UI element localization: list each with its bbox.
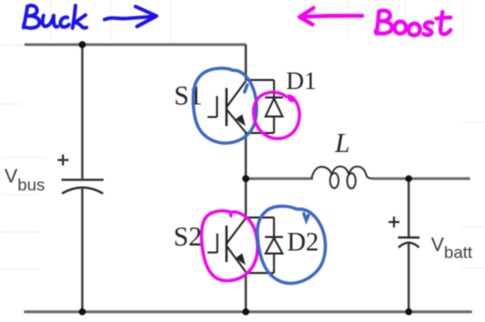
- wire middle rail right of inductor: [373, 177, 471, 180]
- wire right vertical lower (Vbatt bottom): [408, 243, 410, 312]
- svg-text:D1: D1: [286, 68, 317, 95]
- transistor S1 (IGBT): [208, 81, 246, 133]
- wire center vertical S1-S2 link: [245, 133, 247, 218]
- annotation arrow right (blue): [105, 7, 157, 27]
- capacitor Vbatt: [398, 238, 420, 248]
- diode D2 frame: [246, 218, 274, 274]
- svg-text:S2: S2: [174, 222, 203, 252]
- diode D1: [265, 98, 283, 117]
- annotation arrow left (magenta): [300, 8, 363, 25]
- annotation circle S2 (magenta): [201, 211, 257, 281]
- annotation circle S1 (blue): [193, 68, 256, 143]
- wire left vertical upper (Vbus top): [81, 45, 83, 179]
- wire right vertical upper (Vbatt top): [408, 179, 410, 237]
- svg-text:L: L: [334, 128, 350, 158]
- node A: top rail / Vbus junction: [79, 41, 86, 48]
- wire bottom rail: [24, 310, 472, 313]
- wire top rail: [25, 43, 247, 46]
- arrowhead S2 emitter: [235, 253, 245, 265]
- node D: bottom rail / S2 junction: [242, 308, 249, 315]
- diode D2: [265, 237, 283, 254]
- inductor L coil: [312, 166, 373, 188]
- wire middle rail left of inductor: [246, 177, 313, 180]
- plus sign Vbatt: [389, 217, 400, 228]
- capacitor Vbus: [62, 180, 104, 194]
- node E: middle rail / Vbatt junction: [405, 175, 412, 182]
- annotation circle D1 (magenta): [254, 92, 300, 138]
- annotation Buck (blue): [24, 6, 87, 29]
- annotation Boost (magenta): [376, 11, 451, 36]
- wire center vertical S2 emitter to bottom: [245, 273, 247, 312]
- node C: switch midpoint junction: [242, 175, 249, 182]
- svg-text:S1: S1: [174, 81, 203, 111]
- node B: bottom rail / Vbus junction: [79, 308, 86, 315]
- wire center vertical S1 collector: [245, 45, 247, 80]
- diode D1 frame: [246, 80, 274, 133]
- svg-text:D2: D2: [287, 228, 319, 257]
- wire left vertical lower (Vbus bottom): [81, 189, 83, 312]
- plus sign Vbus: [58, 155, 69, 166]
- node F: bottom rail / Vbatt junction: [405, 308, 412, 315]
- arrowhead S1 emitter: [235, 114, 245, 126]
- annotation circle D2 (blue): [257, 206, 325, 283]
- transistor S2 (IGBT): [208, 218, 246, 272]
